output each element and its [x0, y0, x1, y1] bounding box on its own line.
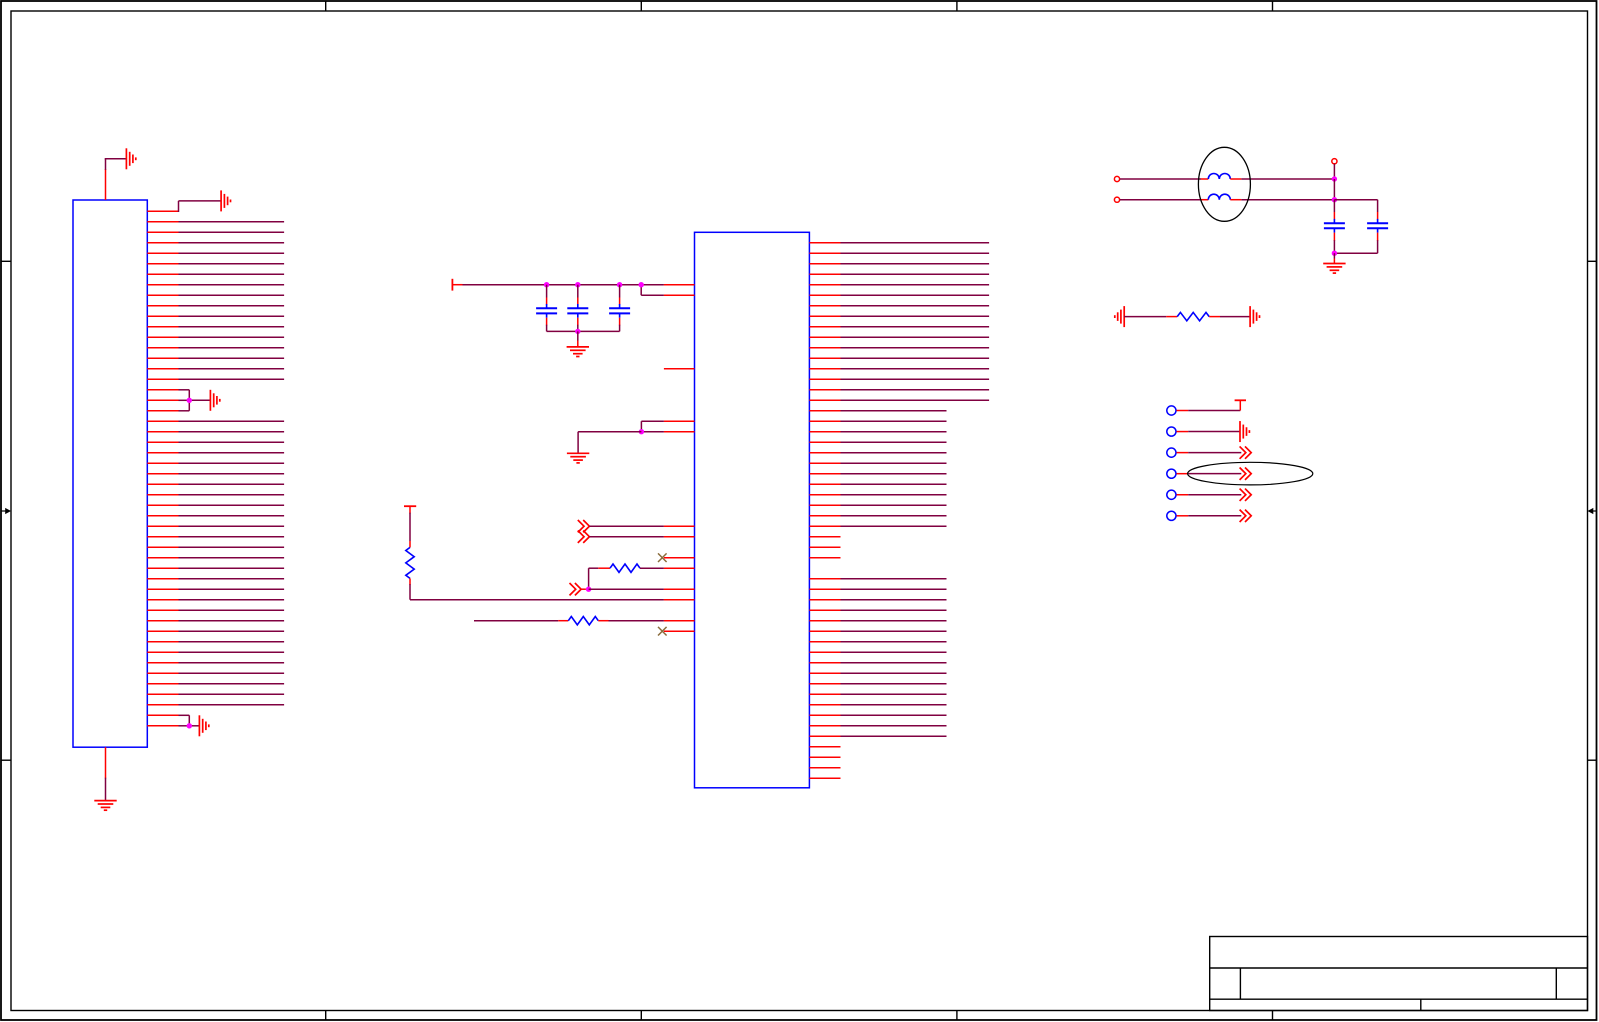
connector J1 body	[73, 200, 147, 747]
U1 right wire group3 13	[809, 704, 946, 706]
capacitor C2	[567, 304, 588, 318]
U1 right wire group1 6	[809, 294, 989, 296]
U1 pin i18 wire	[641, 431, 694, 433]
terminal T3	[1167, 448, 1176, 457]
U1 right wire group1 3	[809, 263, 989, 265]
cap CA top lead	[1333, 200, 1335, 220]
J1 block1 wire 11	[147, 326, 284, 328]
IC U1 body	[695, 232, 810, 788]
junction at J1 bottom bundle	[187, 723, 192, 728]
J1 block2 wire 6	[147, 473, 284, 475]
choke wire 1 right	[1230, 178, 1334, 180]
J1 block2 wire 14	[147, 557, 284, 559]
U1 right wire group1 11	[809, 347, 989, 349]
J1 block2 wire 16	[147, 578, 284, 580]
U1 pin i5 branch wire	[641, 285, 694, 296]
off-page connector at T4	[1240, 467, 1252, 479]
U1 right wire group3 2	[809, 588, 946, 590]
U1 right wire group2 2	[809, 420, 946, 422]
terminal T1	[1167, 406, 1176, 415]
J1 block2 wire 13	[147, 546, 284, 548]
J1 top pin wire	[105, 159, 127, 200]
power terminal at T1	[1235, 400, 1246, 410]
choke L2 winding	[1208, 194, 1230, 200]
U1 right wire group1 16	[809, 399, 989, 401]
J1 block1 wire 1	[147, 221, 284, 223]
U1 right stub b1	[809, 746, 840, 748]
power terminal at R1 top	[404, 506, 416, 513]
U1 right wire group3 12	[809, 693, 946, 695]
U1 right wire group3 16	[809, 735, 946, 737]
U1 pin i36 wire left	[474, 620, 568, 622]
U1 right wire group2 7	[809, 473, 946, 475]
wire to cap CB	[1334, 199, 1377, 201]
terminal P1	[1114, 176, 1119, 181]
U1 right wire group1 8	[809, 315, 989, 317]
junction at cap bus	[575, 329, 580, 334]
capacitor C2 bottom lead	[577, 318, 579, 332]
T2 wire	[1177, 431, 1241, 433]
J1 block2 wire 1	[147, 420, 284, 422]
T6 wire	[1177, 515, 1242, 517]
J1 block2 wire 5	[147, 462, 284, 464]
J1 bottom bundle pin a	[147, 714, 189, 716]
cap bottom bus wire	[547, 330, 620, 332]
ground left of R4	[1115, 306, 1124, 327]
cap CB bottom lead	[1377, 233, 1379, 254]
U1 pin i31 wire left	[589, 567, 610, 569]
wire between junctions	[1333, 179, 1335, 200]
J1 mid bundle vertical wire	[188, 390, 190, 411]
J1 mid bundle pin c	[147, 410, 189, 412]
J1 block2 wire 9	[147, 504, 284, 506]
capacitor C1 bottom lead	[546, 318, 548, 332]
T1 wire	[1177, 410, 1241, 412]
R1 bottom lead wire	[409, 578, 411, 599]
J1 block1 wire 8	[147, 294, 284, 296]
U1 pin i17 wire	[641, 421, 694, 432]
ground at i18 net	[567, 453, 589, 463]
capacitor C2 top lead	[577, 285, 579, 305]
J1 block2 wire 19	[147, 609, 284, 611]
ground right of R4	[1250, 306, 1259, 327]
choke wire 2 left	[1120, 199, 1209, 201]
capacitor C3	[609, 304, 630, 318]
J1 block1 wire 15	[147, 368, 284, 370]
U1 pin i33 wire	[589, 588, 695, 590]
capacitor C3 bottom lead	[619, 318, 621, 332]
J1 block2 wire 3	[147, 441, 284, 443]
U1 right wire group2 9	[809, 494, 946, 496]
choke L1 winding	[1208, 174, 1230, 180]
U1 pin i28 wire	[589, 536, 694, 538]
off-page connector at i28	[578, 531, 590, 543]
U1 right wire group3 9	[809, 662, 946, 664]
U1 pin i34 wire	[410, 599, 695, 601]
U1 right wire group3 15	[809, 725, 946, 727]
U1 right wire group2 1	[809, 410, 946, 412]
J1 block1 wire 7	[147, 284, 284, 286]
J1 block2 wire 15	[147, 567, 284, 569]
terminal T2	[1167, 427, 1176, 436]
terminal P3	[1332, 159, 1337, 164]
U1 right wire group3 6	[809, 630, 946, 632]
junction on rail at C3	[617, 282, 622, 287]
U1 right wire group1 10	[809, 336, 989, 338]
J1 bottom bundle wire to ground	[189, 725, 199, 727]
J1 block1 wire 3	[147, 242, 284, 244]
capacitor C1 top lead	[546, 285, 548, 305]
off-page connector at i33	[570, 583, 582, 595]
junction at i18	[639, 429, 644, 434]
U1 pin i36 wire right	[598, 620, 694, 622]
J1 block2 wire 11	[147, 525, 284, 527]
T4 wire	[1177, 473, 1242, 475]
J1 block2 wire 4	[147, 452, 284, 454]
J1 block2 wire 22	[147, 641, 284, 643]
U1 right wire group3 8	[809, 651, 946, 653]
J1 mid bundle pin a	[147, 389, 189, 391]
vertical wire i31-i33	[588, 568, 590, 589]
capacitor C1	[536, 304, 557, 318]
wire caps to ground	[1333, 253, 1335, 263]
group ellipse	[1188, 462, 1313, 485]
T5 wire	[1177, 494, 1242, 496]
U1 right stub b4	[809, 777, 840, 779]
off-page connector at T6	[1240, 510, 1252, 522]
U1 right wire group3 3	[809, 599, 946, 601]
cap CA bottom lead	[1333, 233, 1335, 254]
off-page connector at T3	[1240, 446, 1252, 458]
J1 bottom pin wire	[105, 747, 107, 800]
capacitor CA	[1324, 219, 1345, 233]
J1 block2 wire 21	[147, 630, 284, 632]
U1 pin i27 wire	[589, 525, 694, 527]
junction on rail at branch	[639, 282, 644, 287]
resistor R4	[1177, 312, 1209, 320]
U1 pin i30 stub	[664, 557, 695, 559]
U1 right wire group1 2	[809, 252, 989, 254]
J1 block2 wire 18	[147, 599, 284, 601]
J1 block2 wire 12	[147, 536, 284, 538]
J1 block1 wire 9	[147, 305, 284, 307]
J1 block2 wire 17	[147, 588, 284, 590]
ground at J1 pin 1	[221, 190, 230, 211]
U1 pin i31 wire right	[640, 567, 695, 569]
U1 right stub b2	[809, 756, 840, 758]
U1 right wire group2 6	[809, 462, 946, 464]
J1 mid bundle wire to ground	[189, 399, 210, 401]
U1 right wire group3 11	[809, 683, 946, 685]
J1 block2 wire 23	[147, 651, 284, 653]
U1 right stub 2	[809, 546, 840, 548]
U1 right stub 3	[809, 557, 840, 559]
cap bottom join wire	[1334, 252, 1377, 254]
off-page connector at i27	[578, 520, 590, 532]
wire chevron to junction i33	[581, 588, 586, 590]
U1 right wire group3 14	[809, 714, 946, 716]
J1 block2 wire 2	[147, 431, 284, 433]
R1 top lead wire	[409, 513, 411, 548]
J1 block2 wire 26	[147, 683, 284, 685]
U1 right wire group1 13	[809, 368, 989, 370]
U1 right wire group1 15	[809, 389, 989, 391]
terminal T5	[1167, 490, 1176, 499]
resistor R1	[406, 547, 414, 578]
J1 block1 wire 2	[147, 231, 284, 233]
wire P3 down	[1333, 164, 1335, 179]
terminal T6	[1167, 511, 1176, 520]
U1 right wire group2 4	[809, 441, 946, 443]
terminal T4	[1167, 469, 1176, 478]
U1 right wire group2 12	[809, 525, 946, 527]
junction choke top	[1332, 176, 1337, 181]
choke wire 2 right	[1230, 199, 1334, 201]
power rail wire	[463, 284, 695, 286]
J1 bottom bundle vertical wire	[188, 715, 190, 726]
T3 wire	[1177, 452, 1242, 454]
terminal P2	[1114, 197, 1119, 202]
off-page connector at T5	[1240, 489, 1252, 501]
J1 pin 1 wire to ground	[147, 201, 221, 212]
J1 block2 wire 10	[147, 515, 284, 517]
junction caps bottom	[1332, 251, 1337, 256]
U1 right wire group3 5	[809, 620, 946, 622]
U1 right stub b3	[809, 767, 840, 769]
ground at J1 mid bundle	[210, 390, 219, 411]
wire i18 to ground	[578, 432, 641, 454]
J1 block1 wire 6	[147, 273, 284, 275]
J1 block2 wire 28	[147, 704, 284, 706]
J1 block2 wire 25	[147, 672, 284, 674]
ground at T2	[1240, 421, 1249, 442]
capacitor C3 top lead	[619, 285, 621, 305]
U1 right wire group3 7	[809, 641, 946, 643]
choke ellipse	[1198, 147, 1250, 221]
J1 block2 wire 8	[147, 494, 284, 496]
U1 right wire group2 5	[809, 452, 946, 454]
U1 right wire group1 4	[809, 273, 989, 275]
cap CB top lead	[1377, 200, 1379, 220]
capacitor CB	[1367, 219, 1388, 233]
J1 block2 wire 7	[147, 483, 284, 485]
U1 right wire group1 7	[809, 305, 989, 307]
R4 right wire	[1209, 316, 1250, 318]
J1 block1 wire 16	[147, 378, 284, 380]
J1 block1 wire 5	[147, 263, 284, 265]
U1 right wire group1 1	[809, 242, 989, 244]
U1 right wire group2 10	[809, 504, 946, 506]
ground at choke caps	[1323, 264, 1345, 274]
R4 left wire	[1124, 316, 1177, 318]
J1 block2 wire 20	[147, 620, 284, 622]
U1 right wire group2 3	[809, 431, 946, 433]
J1 block1 wire 4	[147, 252, 284, 254]
ground at J1 bottom	[94, 801, 116, 811]
J1 block1 wire 10	[147, 315, 284, 317]
U1 right wire group3 1	[809, 578, 946, 580]
ground at cap bus	[567, 347, 589, 357]
junction at i33	[586, 587, 591, 592]
U1 right wire group1 12	[809, 357, 989, 359]
junction choke bottom	[1332, 197, 1337, 202]
no-connect at i37	[658, 627, 667, 636]
J1 block2 wire 24	[147, 662, 284, 664]
J1 mid bundle pin b	[147, 399, 189, 401]
U1 pin i12 stub	[664, 368, 695, 370]
U1 right wire group2 8	[809, 483, 946, 485]
J1 block2 wire 27	[147, 693, 284, 695]
ground at J1 bottom bundle	[199, 715, 208, 736]
U1 pin i37 stub	[664, 630, 695, 632]
J1 block1 wire 14	[147, 357, 284, 359]
resistor R3	[568, 617, 598, 625]
power terminal VCC	[452, 279, 462, 291]
U1 right wire group1 5	[809, 284, 989, 286]
junction on rail at C1	[544, 282, 549, 287]
J1 block1 wire 12	[147, 336, 284, 338]
junction on rail at C2	[575, 282, 580, 287]
choke wire 1 left	[1120, 178, 1209, 180]
U1 right wire group1 9	[809, 326, 989, 328]
J1 block1 wire 13	[147, 347, 284, 349]
junction at J1 mid bundle	[187, 398, 192, 403]
U1 right wire group1 14	[809, 378, 989, 380]
cap bus ground wire	[577, 331, 579, 347]
U1 right wire group3 10	[809, 672, 946, 674]
J1 bottom bundle pin b	[147, 725, 189, 727]
U1 right wire group2 11	[809, 515, 946, 517]
resistor R2	[610, 564, 640, 572]
ground at J1 top	[126, 148, 135, 169]
U1 right stub 1	[809, 536, 840, 538]
U1 right wire group3 4	[809, 609, 946, 611]
no-connect at i30	[658, 553, 667, 562]
